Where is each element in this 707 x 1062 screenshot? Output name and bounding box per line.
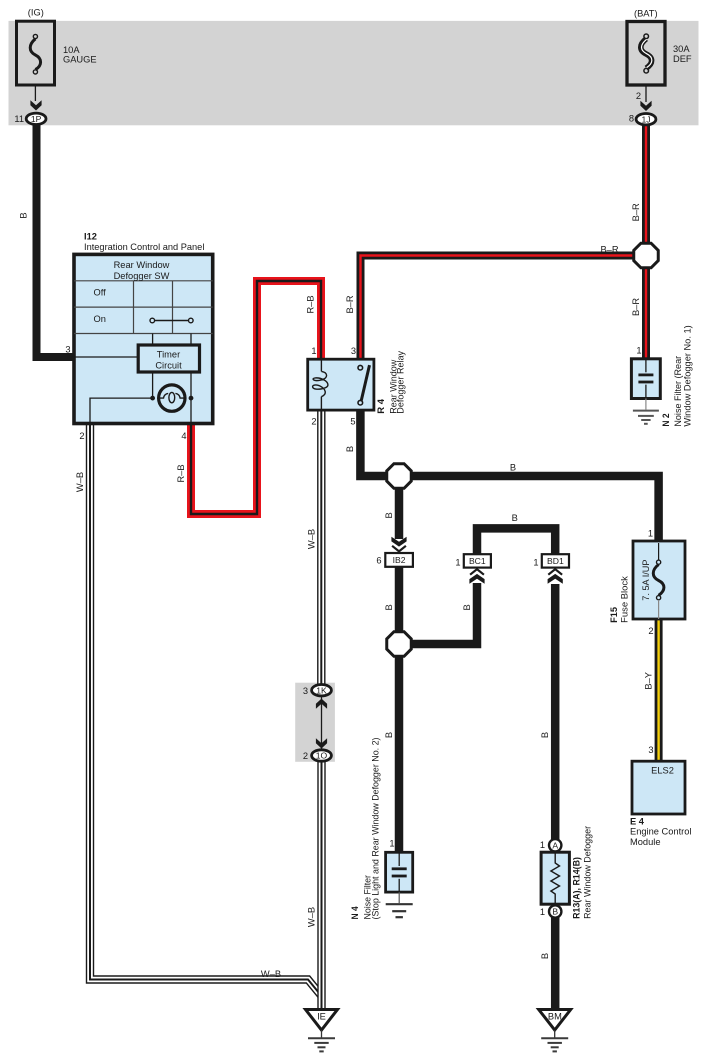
svg-text:GAUGE: GAUGE	[63, 54, 97, 64]
connector IB2	[385, 553, 413, 567]
svg-text:3: 3	[351, 346, 356, 356]
svg-text:Timer: Timer	[157, 350, 180, 360]
BM ground triangle	[539, 1010, 571, 1038]
svg-text:IE: IE	[317, 1012, 326, 1022]
arrow into connector IB2	[391, 537, 406, 552]
svg-text:2: 2	[636, 91, 641, 101]
svg-text:2: 2	[79, 431, 84, 441]
svg-text:1J: 1J	[641, 114, 650, 124]
svg-text:1O: 1O	[316, 751, 328, 761]
fuse (IG) 10A GAUGE	[17, 21, 55, 101]
connector oval 1P	[26, 113, 46, 124]
ground symbol under N4	[386, 904, 413, 917]
svg-text:1: 1	[540, 840, 545, 850]
svg-text:(BAT): (BAT)	[634, 8, 658, 18]
svg-text:5: 5	[350, 417, 355, 427]
svg-text:B: B	[540, 732, 550, 738]
svg-text:B: B	[510, 463, 516, 473]
connector BC1	[464, 554, 491, 567]
wire W-B from relay R4 pin 2 to connector 1K	[317, 409, 325, 687]
svg-text:ELS2: ELS2	[651, 766, 674, 776]
svg-text:1: 1	[648, 529, 653, 539]
fuse block F15 box	[633, 541, 685, 619]
svg-text:I12: I12	[84, 232, 97, 242]
connector oval 1J	[636, 114, 656, 125]
connector oval 1O	[312, 750, 332, 761]
svg-text:B: B	[384, 604, 394, 610]
junction node (B splice lower)	[387, 632, 412, 657]
ground symbol under N2	[633, 411, 659, 424]
svg-text:A: A	[552, 840, 558, 850]
svg-text:1: 1	[389, 839, 394, 849]
svg-text:(IG): (IG)	[28, 8, 44, 18]
svg-text:B: B	[384, 512, 394, 518]
svg-text:Off: Off	[94, 288, 107, 298]
noise filter N2 box with capacitor	[631, 359, 660, 410]
svg-text:1: 1	[533, 557, 538, 567]
svg-text:B–R: B–R	[631, 298, 641, 316]
svg-text:B: B	[384, 732, 394, 738]
svg-text:2: 2	[648, 626, 653, 636]
wire R-B from I12 pin 4 to relay R4 pin 1	[191, 281, 321, 514]
I12 Integration Control and Panel box	[74, 254, 213, 423]
wire B from lower junction to connector BC1	[408, 583, 477, 644]
svg-text:Fuse Block: Fuse Block	[620, 576, 630, 623]
svg-text:1: 1	[311, 346, 316, 356]
svg-text:1: 1	[455, 557, 460, 567]
ELS2 / E4 Engine Control Module box	[632, 761, 685, 814]
fuse (BAT) 30A DEF	[627, 22, 665, 103]
wire B from connector BD1 to defogger terminal A	[551, 584, 560, 841]
svg-text:DEF: DEF	[673, 54, 692, 64]
wire B-Y from fuse block F15 pin 2 to ELS2 pin 3	[655, 617, 663, 763]
svg-text:1: 1	[636, 346, 641, 356]
connector oval 1K	[312, 685, 332, 696]
svg-text:7. 5A I/UP: 7. 5A I/UP	[641, 560, 651, 601]
svg-text:B–R: B–R	[345, 295, 355, 313]
junction node (B splice upper)	[387, 464, 412, 489]
svg-text:B: B	[552, 907, 558, 917]
svg-text:Window Defogger No. 1): Window Defogger No. 1)	[683, 325, 693, 426]
svg-text:Defogger Relay: Defogger Relay	[396, 351, 406, 414]
svg-text:Defogger SW: Defogger SW	[114, 271, 170, 281]
wire B from junction down to connector IB2	[395, 487, 404, 539]
svg-text:3: 3	[303, 686, 308, 696]
connector BD1	[542, 554, 569, 567]
svg-text:R–B: R–B	[306, 295, 316, 313]
thin link between connectors 1K and 1O	[321, 694, 323, 752]
IE ground triangle	[306, 1010, 338, 1038]
svg-text:11: 11	[14, 114, 24, 124]
svg-text:1P: 1P	[31, 114, 42, 124]
wire W-B from connector 1O to IE ground	[317, 758, 325, 1010]
timer circuit box inside I12	[138, 345, 199, 372]
svg-text:BM: BM	[548, 1012, 562, 1022]
arrow down into connector 1O	[316, 738, 327, 748]
svg-text:B: B	[540, 953, 550, 959]
svg-text:8: 8	[629, 114, 634, 124]
svg-text:BD1: BD1	[547, 556, 564, 566]
junction node (B-R splice)	[634, 243, 659, 268]
svg-text:B: B	[19, 212, 29, 218]
svg-text:4: 4	[181, 431, 186, 441]
svg-text:B–R: B–R	[631, 203, 641, 221]
svg-text:Circuit: Circuit	[155, 360, 182, 370]
wire B from connector IB2 to lower junction	[395, 566, 404, 634]
internal wiring of I12	[75, 334, 191, 423]
svg-text:30A: 30A	[673, 44, 690, 54]
wire B-R from connector 1J through junction to noise filter N2	[642, 122, 650, 360]
svg-text:Rear Window: Rear Window	[114, 260, 170, 270]
svg-text:Rear Window Defogger: Rear Window Defogger	[582, 826, 592, 919]
wire B from defogger terminal B to BM ground	[551, 916, 560, 1010]
wire B linking BC1 and BD1 tops	[477, 528, 555, 554]
noise filter N4 box with capacitor	[386, 852, 413, 903]
svg-text:B–R: B–R	[600, 245, 618, 255]
wire B from junction to fuse block F15 pin 1	[396, 476, 659, 543]
svg-text:B: B	[462, 604, 472, 610]
svg-text:F15: F15	[609, 607, 619, 623]
svg-text:R 4: R 4	[376, 398, 386, 414]
gray connector block behind 1K/1O	[295, 683, 335, 762]
svg-text:2: 2	[311, 417, 316, 427]
svg-text:On: On	[94, 314, 106, 324]
arrow into connector 1P	[30, 100, 41, 110]
ground symbol under BM	[541, 1038, 568, 1051]
wire B-R from junction to relay R4 pin 3	[361, 256, 643, 362]
svg-text:B: B	[512, 513, 518, 523]
arrow up into connector 1K	[316, 699, 327, 709]
wire B from connector 1P to I12 pin 3	[37, 122, 77, 357]
switch contact in On row	[150, 318, 193, 323]
arrow into connector 1J	[640, 101, 651, 111]
ground symbol under IE	[308, 1038, 335, 1051]
arrow into connector BC1	[469, 569, 484, 584]
svg-text:2: 2	[303, 751, 308, 761]
svg-text:W–B: W–B	[307, 529, 317, 549]
gray power rail band	[9, 21, 699, 125]
svg-text:3: 3	[648, 745, 653, 755]
svg-text:N 2: N 2	[661, 413, 671, 426]
svg-text:W–B: W–B	[75, 472, 85, 492]
relay R4 Rear Window Defogger Relay box	[308, 359, 374, 410]
svg-text:3: 3	[65, 345, 70, 355]
svg-text:W–B: W–B	[307, 907, 317, 927]
svg-text:6: 6	[376, 556, 381, 566]
defogger terminal A	[549, 839, 561, 851]
defogger R13(A),R14(B) resistor box	[541, 852, 569, 904]
svg-text:IB2: IB2	[393, 555, 406, 565]
svg-text:Engine Control: Engine Control	[630, 827, 692, 837]
svg-text:1: 1	[540, 907, 545, 917]
svg-text:1K: 1K	[316, 685, 327, 695]
svg-text:Module: Module	[630, 837, 661, 847]
wire B from relay R4 pin 5 to junction	[360, 409, 402, 476]
wire B from lower junction to noise filter N4	[395, 655, 404, 854]
defogger terminal B	[549, 905, 561, 917]
svg-text:Noise Filter (Rear: Noise Filter (Rear	[673, 356, 683, 427]
svg-text:B: B	[345, 446, 355, 452]
svg-text:R–B: R–B	[176, 464, 186, 482]
arrow into connector BD1	[548, 569, 563, 584]
svg-text:Integration Control and Panel: Integration Control and Panel	[84, 242, 204, 252]
svg-text:N 4: N 4	[350, 906, 360, 920]
svg-text:(Stop Light and Rear Window De: (Stop Light and Rear Window Defogger No.…	[370, 738, 380, 920]
wire W-B from I12 pin 2 to IE ground	[90, 422, 322, 996]
indicator lamp inside I12	[150, 385, 193, 411]
svg-text:BC1: BC1	[469, 556, 486, 566]
svg-text:W–B: W–B	[261, 969, 281, 979]
svg-text:B–Y: B–Y	[644, 672, 654, 690]
svg-text:E 4: E 4	[630, 816, 645, 826]
svg-text:R13(A), R14(B): R13(A), R14(B)	[572, 857, 582, 919]
